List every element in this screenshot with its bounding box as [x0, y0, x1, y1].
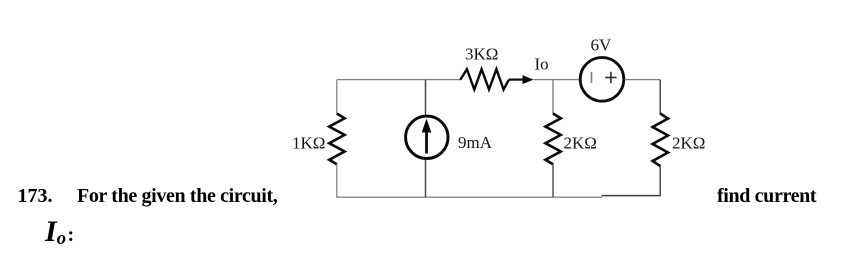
current source I1 9mA: [406, 116, 448, 158]
wire left vertical upper: [336, 80, 338, 115]
resistor R3 2KΩ middle: [545, 114, 560, 165]
svg-text:9mA: 9mA: [458, 133, 493, 152]
svg-text:6V: 6V: [591, 36, 613, 55]
wire current-source branch upper: [425, 80, 427, 115]
svg-text:2KΩ: 2KΩ: [672, 134, 705, 153]
problem number 173.: [18, 186, 53, 206]
svg-text:Io: Io: [535, 55, 549, 74]
wire middle branch lower: [552, 164, 554, 197]
svg-text:3KΩ: 3KΩ: [465, 45, 498, 64]
voltage source V1 6V: [580, 58, 624, 102]
wire current-source branch lower: [425, 160, 427, 197]
wire right branch upper: [659, 80, 661, 115]
problem text: For the given the circuit,: [77, 186, 277, 206]
resistor R4 2KΩ right: [653, 114, 668, 167]
wire top-left horizontal: [337, 79, 461, 81]
wire right branch lower: [659, 166, 661, 196]
problem text: Io:: [45, 217, 74, 249]
wire bottom-left horizontal: [336, 196, 602, 198]
svg-text:2KΩ: 2KΩ: [564, 134, 597, 153]
current arrow Io: [509, 75, 534, 84]
wire arrow to node: [534, 79, 580, 81]
resistor R2 3KΩ: [460, 69, 509, 89]
wire left vertical lower: [336, 164, 338, 197]
wire middle branch upper: [552, 80, 554, 115]
problem text: find current: [717, 186, 816, 206]
wire voltage source to right branch: [625, 79, 661, 81]
wire bottom-right horizontal: [602, 195, 661, 197]
svg-text:1KΩ: 1KΩ: [292, 134, 325, 153]
resistor R1 1KΩ: [329, 114, 344, 165]
